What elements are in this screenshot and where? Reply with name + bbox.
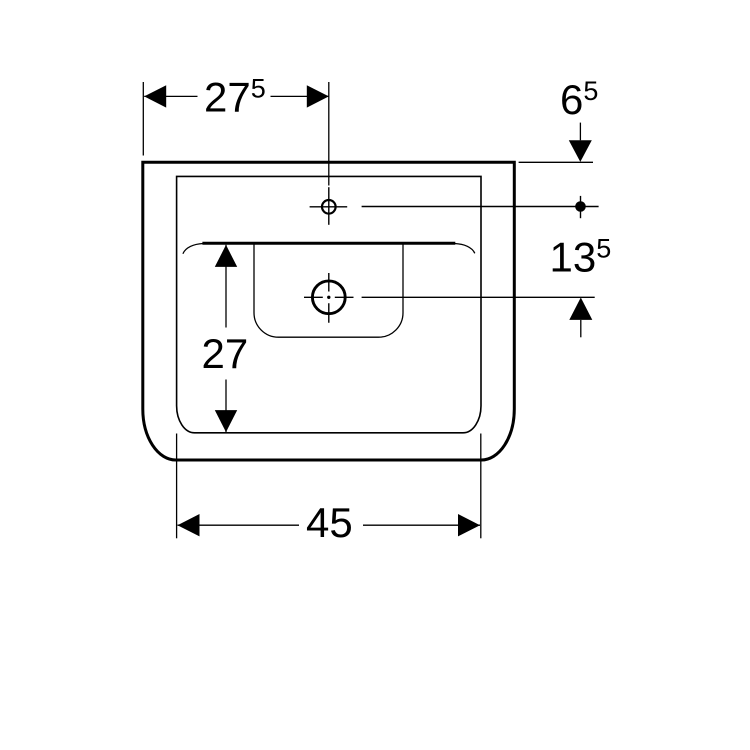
dimension 13.5: arrow tail [580,320,582,337]
dimension 27.5: left extension line [142,82,144,156]
svg-text:45: 45 [306,499,353,546]
outer washbasin outline [143,162,515,460]
drain hole [312,281,345,314]
inner rim outline [177,176,481,432]
dimension 13.5: dot tick [580,196,582,218]
dimension 45: right arrow [458,514,480,536]
svg-text:27: 27 [202,330,249,377]
faucet leader line [362,206,599,208]
dimension 13.5: dot terminator [575,201,586,212]
dimension 45: dimension line [178,524,481,526]
dimension 27.5: dimension line [144,95,329,97]
drain hole crosshair vertical [328,273,330,323]
faucet hole crosshair [310,206,348,208]
dimension 27: up arrow [215,245,237,267]
dimension 45: left arrow [178,514,200,536]
faucet hole [322,200,336,214]
top edge extension line (right) [519,161,593,163]
dimension 45: left extension line [176,434,178,539]
dimension 27: down arrow [215,410,237,432]
dimension 6.5: arrow tail [579,123,581,141]
faucet hole centerline (vertical) [328,82,330,186]
dimension 45: text mask [299,504,363,542]
dimension 27: dimension line [225,245,227,432]
shelf edge thick line [202,242,455,245]
shelf end curve left [183,244,203,254]
dimension 13.5: up arrow [569,298,592,320]
shelf end curve right [455,244,475,254]
drain hole crosshair horizontal [304,296,354,298]
dimension 27.5: right arrow [307,85,329,107]
drain leader line [362,296,595,298]
dimension 45: right extension line [480,434,482,539]
basin bowl outline [254,244,403,337]
dimension 27.5: left arrow [144,85,166,107]
dimension 6.5: down arrow [569,140,592,162]
dimension 27: text mask [198,328,254,380]
dimension 27.5: text mask [198,78,271,114]
